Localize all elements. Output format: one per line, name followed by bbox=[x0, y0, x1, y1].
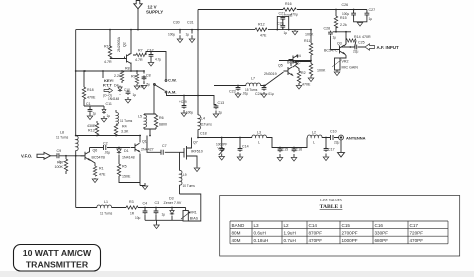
svg-text:L9: L9 bbox=[183, 173, 187, 177]
svg-text:C13: C13 bbox=[218, 101, 225, 105]
svg-text:4.7R: 4.7R bbox=[135, 58, 143, 62]
svg-text:L2: L2 bbox=[312, 131, 316, 135]
svg-text:11 Turns: 11 Turns bbox=[56, 136, 69, 140]
svg-text:R14: R14 bbox=[354, 35, 361, 39]
svg-text:C10: C10 bbox=[330, 130, 337, 134]
svg-text:3.3K: 3.3K bbox=[121, 130, 129, 134]
svg-text:470R: 470R bbox=[362, 35, 371, 39]
svg-text:1μ: 1μ bbox=[93, 112, 97, 116]
svg-text:470PF: 470PF bbox=[410, 238, 424, 243]
svg-text:Q4: Q4 bbox=[296, 54, 301, 58]
svg-text:C30: C30 bbox=[173, 21, 180, 25]
svg-text:TRANSMITTER: TRANSMITTER bbox=[26, 259, 89, 269]
svg-text:C.W.: C.W. bbox=[168, 78, 177, 83]
svg-text:12 V: 12 V bbox=[148, 4, 157, 9]
svg-text:2N4427: 2N4427 bbox=[141, 148, 154, 152]
svg-text:Zener 7.9V: Zener 7.9V bbox=[164, 201, 182, 205]
svg-text:L2: L2 bbox=[284, 223, 290, 228]
svg-text:C11: C11 bbox=[106, 102, 112, 106]
svg-text:1μ: 1μ bbox=[107, 114, 111, 118]
svg-text:1μ: 1μ bbox=[133, 93, 137, 97]
svg-text:11Turns: 11Turns bbox=[201, 123, 213, 127]
svg-text:Q2: Q2 bbox=[123, 42, 127, 47]
svg-text:10μ: 10μ bbox=[135, 216, 141, 220]
svg-text:C14: C14 bbox=[309, 223, 318, 228]
svg-text:D3: D3 bbox=[169, 197, 174, 201]
svg-text:5μ: 5μ bbox=[147, 83, 151, 87]
svg-text:L4: L4 bbox=[201, 117, 205, 121]
svg-text:IRF510: IRF510 bbox=[191, 150, 203, 154]
svg-text:C17: C17 bbox=[410, 223, 419, 228]
svg-text:10k: 10k bbox=[139, 85, 145, 89]
svg-text:2.2k: 2.2k bbox=[340, 23, 347, 27]
svg-text:C16: C16 bbox=[375, 223, 384, 228]
svg-text:10 WATT AM/CW: 10 WATT AM/CW bbox=[23, 248, 92, 258]
svg-text:C3: C3 bbox=[155, 201, 160, 205]
svg-text:470PF: 470PF bbox=[309, 238, 323, 243]
svg-text:L5: L5 bbox=[138, 115, 142, 119]
svg-text:R9: R9 bbox=[131, 75, 136, 79]
svg-text:C28: C28 bbox=[324, 27, 331, 31]
svg-text:0.7uH: 0.7uH bbox=[284, 238, 296, 243]
svg-text:1μ: 1μ bbox=[284, 31, 288, 35]
svg-text:R3: R3 bbox=[129, 200, 134, 204]
svg-text:Q1: Q1 bbox=[142, 140, 147, 144]
svg-text:A.F. INPUT: A.F. INPUT bbox=[377, 45, 400, 50]
svg-text:C24: C24 bbox=[255, 92, 262, 96]
svg-text:R17: R17 bbox=[57, 161, 64, 165]
svg-text:+C29: +C29 bbox=[179, 100, 187, 104]
svg-text:C16: C16 bbox=[296, 148, 303, 152]
svg-text:BC547B: BC547B bbox=[92, 156, 106, 160]
svg-text:SUPPLY: SUPPLY bbox=[146, 10, 163, 15]
svg-text:2μ: 2μ bbox=[219, 111, 223, 115]
svg-text:.01μ: .01μ bbox=[268, 92, 274, 96]
svg-text:V.F.O.: V.F.O. bbox=[21, 153, 32, 158]
svg-text:1N4148: 1N4148 bbox=[108, 97, 119, 101]
svg-text:L3: L3 bbox=[257, 131, 261, 135]
svg-text:R5: R5 bbox=[122, 165, 127, 169]
svg-text:R12: R12 bbox=[258, 23, 265, 27]
svg-text:220E: 220E bbox=[284, 14, 293, 18]
svg-text:720PF: 720PF bbox=[410, 231, 424, 236]
svg-text:C23: C23 bbox=[229, 90, 236, 94]
svg-text:BIAS: BIAS bbox=[190, 217, 199, 221]
svg-text:L8: L8 bbox=[60, 131, 64, 135]
svg-text:C25: C25 bbox=[358, 41, 365, 45]
svg-text:80M: 80M bbox=[232, 231, 241, 236]
svg-text:D1: D1 bbox=[124, 149, 129, 153]
svg-text:470E: 470E bbox=[302, 83, 311, 87]
svg-text:C18: C18 bbox=[200, 132, 207, 136]
svg-text:22μ: 22μ bbox=[334, 141, 340, 145]
svg-text:C4: C4 bbox=[143, 202, 148, 206]
svg-text:R7: R7 bbox=[138, 49, 143, 53]
svg-text:P.T.T: P.T.T bbox=[103, 83, 112, 88]
svg-text:C8: C8 bbox=[146, 74, 151, 78]
svg-text:R8: R8 bbox=[125, 67, 130, 71]
svg-text:4.7μ: 4.7μ bbox=[155, 58, 161, 62]
svg-text:47E: 47E bbox=[260, 34, 267, 38]
svg-text:C2: C2 bbox=[103, 142, 108, 146]
svg-text:Q6: Q6 bbox=[93, 149, 98, 153]
svg-text:470E: 470E bbox=[87, 96, 96, 100]
svg-text:C15: C15 bbox=[282, 148, 289, 152]
svg-text:R13: R13 bbox=[88, 129, 95, 133]
svg-text:150E: 150E bbox=[122, 175, 131, 179]
svg-text:C9: C9 bbox=[57, 149, 62, 153]
svg-text:C7: C7 bbox=[162, 144, 167, 148]
svg-text:330PF: 330PF bbox=[375, 231, 389, 236]
svg-text:R6: R6 bbox=[159, 116, 164, 120]
svg-text:100K: 100K bbox=[55, 165, 64, 169]
svg-text:C31: C31 bbox=[187, 21, 194, 25]
svg-text:2700PF: 2700PF bbox=[342, 231, 358, 236]
svg-text:R16: R16 bbox=[285, 2, 292, 6]
svg-text:L: L bbox=[313, 141, 315, 145]
svg-text:L1: L1 bbox=[104, 200, 108, 204]
svg-text:6800: 6800 bbox=[159, 123, 167, 127]
svg-text:L: L bbox=[258, 141, 260, 145]
svg-text:2.2k: 2.2k bbox=[114, 74, 121, 78]
svg-text:R11: R11 bbox=[304, 39, 310, 43]
svg-text:R10: R10 bbox=[104, 45, 111, 49]
svg-text:100K: 100K bbox=[305, 33, 314, 37]
svg-text:VR1: VR1 bbox=[190, 211, 197, 215]
svg-text:430E: 430E bbox=[87, 124, 96, 128]
svg-text:1000PF: 1000PF bbox=[342, 238, 358, 243]
svg-text:ANTENNA: ANTENNA bbox=[346, 136, 366, 141]
svg-text:100K: 100K bbox=[317, 69, 326, 73]
svg-text:Q5: Q5 bbox=[278, 64, 283, 68]
svg-text:10 Turns: 10 Turns bbox=[183, 184, 196, 188]
svg-text:C12: C12 bbox=[147, 49, 154, 53]
svg-text:22μ: 22μ bbox=[353, 50, 359, 54]
svg-text:R1: R1 bbox=[99, 167, 104, 171]
svg-text:D4: D4 bbox=[114, 84, 119, 88]
svg-text:15 Turns: 15 Turns bbox=[245, 88, 258, 92]
svg-text:.01μ: .01μ bbox=[104, 151, 110, 155]
svg-text:C1: C1 bbox=[86, 102, 91, 106]
svg-text:Q7: Q7 bbox=[193, 141, 198, 145]
svg-text:1μ: 1μ bbox=[162, 213, 166, 217]
svg-text:870PF: 870PF bbox=[309, 231, 323, 236]
svg-text:C20: C20 bbox=[277, 22, 284, 26]
svg-text:L3: L3 bbox=[254, 223, 260, 228]
svg-text:C26: C26 bbox=[342, 3, 349, 7]
svg-text:R4: R4 bbox=[122, 125, 127, 129]
svg-text:1μ: 1μ bbox=[186, 33, 190, 37]
svg-text:R15: R15 bbox=[340, 16, 347, 20]
svg-text:R18: R18 bbox=[87, 88, 94, 92]
svg-text:0.6uH: 0.6uH bbox=[254, 231, 266, 236]
svg-text:11 Turns: 11 Turns bbox=[120, 119, 133, 123]
svg-text:MIC GAIN: MIC GAIN bbox=[342, 66, 359, 70]
svg-text:BC547C: BC547C bbox=[324, 49, 338, 53]
svg-text:BAND: BAND bbox=[232, 223, 245, 228]
svg-text:(O–O): (O–O) bbox=[103, 94, 112, 98]
svg-text:R2: R2 bbox=[301, 71, 306, 75]
svg-text:C17: C17 bbox=[328, 148, 335, 152]
svg-text:11 Turns: 11 Turns bbox=[100, 212, 113, 216]
svg-text:4.7R: 4.7R bbox=[104, 60, 112, 64]
svg-text:VR2: VR2 bbox=[342, 60, 349, 64]
svg-text:C27: C27 bbox=[369, 8, 376, 12]
svg-text:TABLE 1: TABLE 1 bbox=[320, 204, 343, 210]
svg-text:BC547C: BC547C bbox=[287, 61, 301, 65]
svg-text:.01μ: .01μ bbox=[242, 92, 248, 96]
svg-text:C10: C10 bbox=[124, 88, 130, 92]
svg-text:A.M.: A.M. bbox=[168, 90, 176, 95]
svg-text:C14: C14 bbox=[242, 145, 249, 149]
svg-text:1.9uH: 1.9uH bbox=[284, 231, 296, 236]
svg-text:L7: L7 bbox=[251, 77, 255, 81]
svg-text:100μ: 100μ bbox=[168, 33, 175, 37]
svg-text:2N2905A: 2N2905A bbox=[117, 36, 121, 52]
svg-text:1N4148: 1N4148 bbox=[122, 156, 135, 160]
svg-text:680PF: 680PF bbox=[375, 238, 389, 243]
svg-text:L.P.F. VALUES: L.P.F. VALUES bbox=[320, 198, 342, 202]
svg-text:2N3019: 2N3019 bbox=[264, 72, 277, 76]
svg-text:0.18uH: 0.18uH bbox=[254, 238, 269, 243]
svg-text:C15: C15 bbox=[342, 223, 351, 228]
svg-text:47E: 47E bbox=[99, 173, 106, 177]
svg-text:Q3: Q3 bbox=[337, 42, 342, 46]
svg-text:40M: 40M bbox=[232, 238, 241, 243]
svg-text:VC1: VC1 bbox=[218, 147, 224, 151]
svg-text:100μ: 100μ bbox=[186, 111, 193, 115]
svg-text:1μ: 1μ bbox=[333, 36, 337, 40]
svg-text:1R: 1R bbox=[130, 212, 135, 216]
svg-text:1μ: 1μ bbox=[369, 17, 373, 21]
